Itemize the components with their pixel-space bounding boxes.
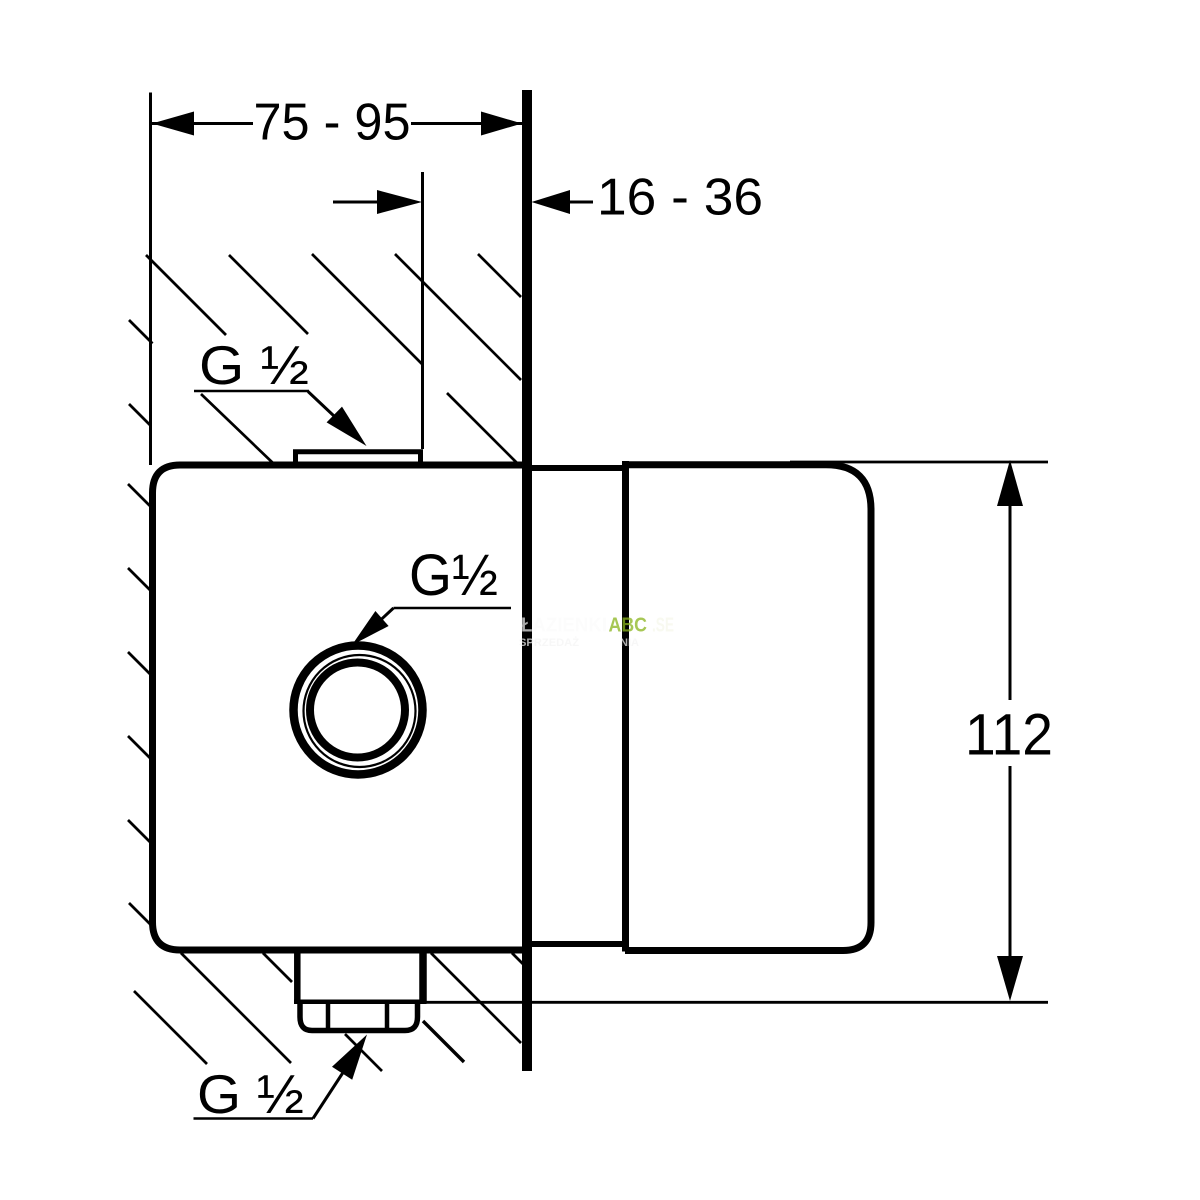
- svg-text:G ½: G ½: [199, 334, 309, 396]
- svg-text:112: 112: [965, 703, 1053, 768]
- svg-text:G ½: G ½: [197, 1063, 304, 1125]
- svg-text:ABC: ABC: [609, 615, 648, 637]
- svg-text:.SE: .SE: [652, 615, 674, 637]
- svg-text:SPRZEDAŻ: SPRZEDAŻ: [519, 636, 579, 649]
- svg-text:ŁAZIENKI: ŁAZIENKI: [521, 615, 607, 637]
- svg-text:75 - 95: 75 - 95: [254, 94, 411, 152]
- svg-text:NIA: NIA: [620, 637, 639, 649]
- svg-text:G½: G½: [409, 543, 498, 608]
- svg-text:16 - 36: 16 - 36: [597, 169, 763, 227]
